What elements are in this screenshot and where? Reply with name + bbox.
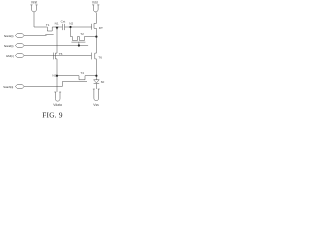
transistor T1 (staple on node line) <box>46 23 62 31</box>
svg-text:EM(n): EM(n) <box>6 54 14 58</box>
node N1 (junction on node line, top of data line) <box>55 21 59 29</box>
wire EM line <box>24 55 91 57</box>
wire scan1 line <box>24 35 46 37</box>
svg-text:60: 60 <box>101 80 105 84</box>
transistor T6 gate bar (on right line, EM row) <box>91 53 102 60</box>
OLED diode symbol <box>94 80 105 84</box>
input tag Scan3(n) <box>3 85 24 90</box>
wire OLED cathode to Vss <box>95 84 97 90</box>
svg-text:T6: T6 <box>98 55 102 59</box>
wire right line: Vdd to DT with DT channel detour, down to OLED <box>94 12 96 80</box>
svg-text:Vinit: Vinit <box>31 1 37 5</box>
svg-text:Vdd: Vdd <box>92 0 98 4</box>
svg-text:Scan1(n): Scan1(n) <box>4 34 14 38</box>
transistor T5 gate bar (on data line) <box>54 52 63 60</box>
svg-text:DT: DT <box>99 26 103 30</box>
svg-text:Vdata: Vdata <box>53 103 62 107</box>
svg-text:T5: T5 <box>59 52 63 56</box>
svg-text:Scan3(n): Scan3(n) <box>3 85 13 89</box>
svg-text:Vss: Vss <box>93 103 99 107</box>
svg-text:N2: N2 <box>69 21 73 25</box>
junction T2 gate on scan2 line <box>78 44 80 46</box>
transistor DT gate bar <box>92 24 103 30</box>
wire data line vertical with T5 channel detour <box>55 27 57 92</box>
svg-text:T2: T2 <box>80 32 84 36</box>
input tag Scan1(n) <box>4 34 25 39</box>
junction T4 right on OLED line <box>95 75 97 77</box>
svg-text:T1: T1 <box>46 23 50 27</box>
terminal Vdd (top right) <box>92 0 99 12</box>
wire scan2 line <box>24 45 88 47</box>
transistor T4 gate bar fed from scan3 line <box>24 82 87 87</box>
capacitor Cst <box>61 19 66 30</box>
wire from Vinit down and right into node line <box>34 12 47 27</box>
terminal Vinit (top left power terminal) <box>30 1 37 12</box>
svg-text:N1: N1 <box>55 21 59 25</box>
input tag Scan2(n) <box>4 44 25 48</box>
svg-text:FIG. 9: FIG. 9 <box>42 111 63 119</box>
node N2 (junction over T2) <box>69 21 73 28</box>
transistor T2 gate bar with stub to scan2 line <box>71 42 85 45</box>
input tag EM(n) <box>6 54 24 59</box>
transistor T1 gate bar <box>45 33 53 35</box>
junction T2 drain on right line <box>95 36 97 38</box>
wire node line right segment <box>65 26 92 28</box>
svg-text:Cst: Cst <box>61 19 66 23</box>
svg-text:Scan2(n): Scan2(n) <box>4 44 14 48</box>
terminal Vss (bottom right) <box>93 89 100 107</box>
transistor T2 (dual staple) <box>71 32 97 40</box>
wire drop from N2 to T2 <box>70 27 72 37</box>
node junction on data line (T4 row) <box>52 73 58 77</box>
terminal Vdata (bottom left) <box>53 92 62 107</box>
svg-text:T4: T4 <box>80 71 84 75</box>
transistor T4 (staple on wire to OLED) <box>57 71 96 80</box>
